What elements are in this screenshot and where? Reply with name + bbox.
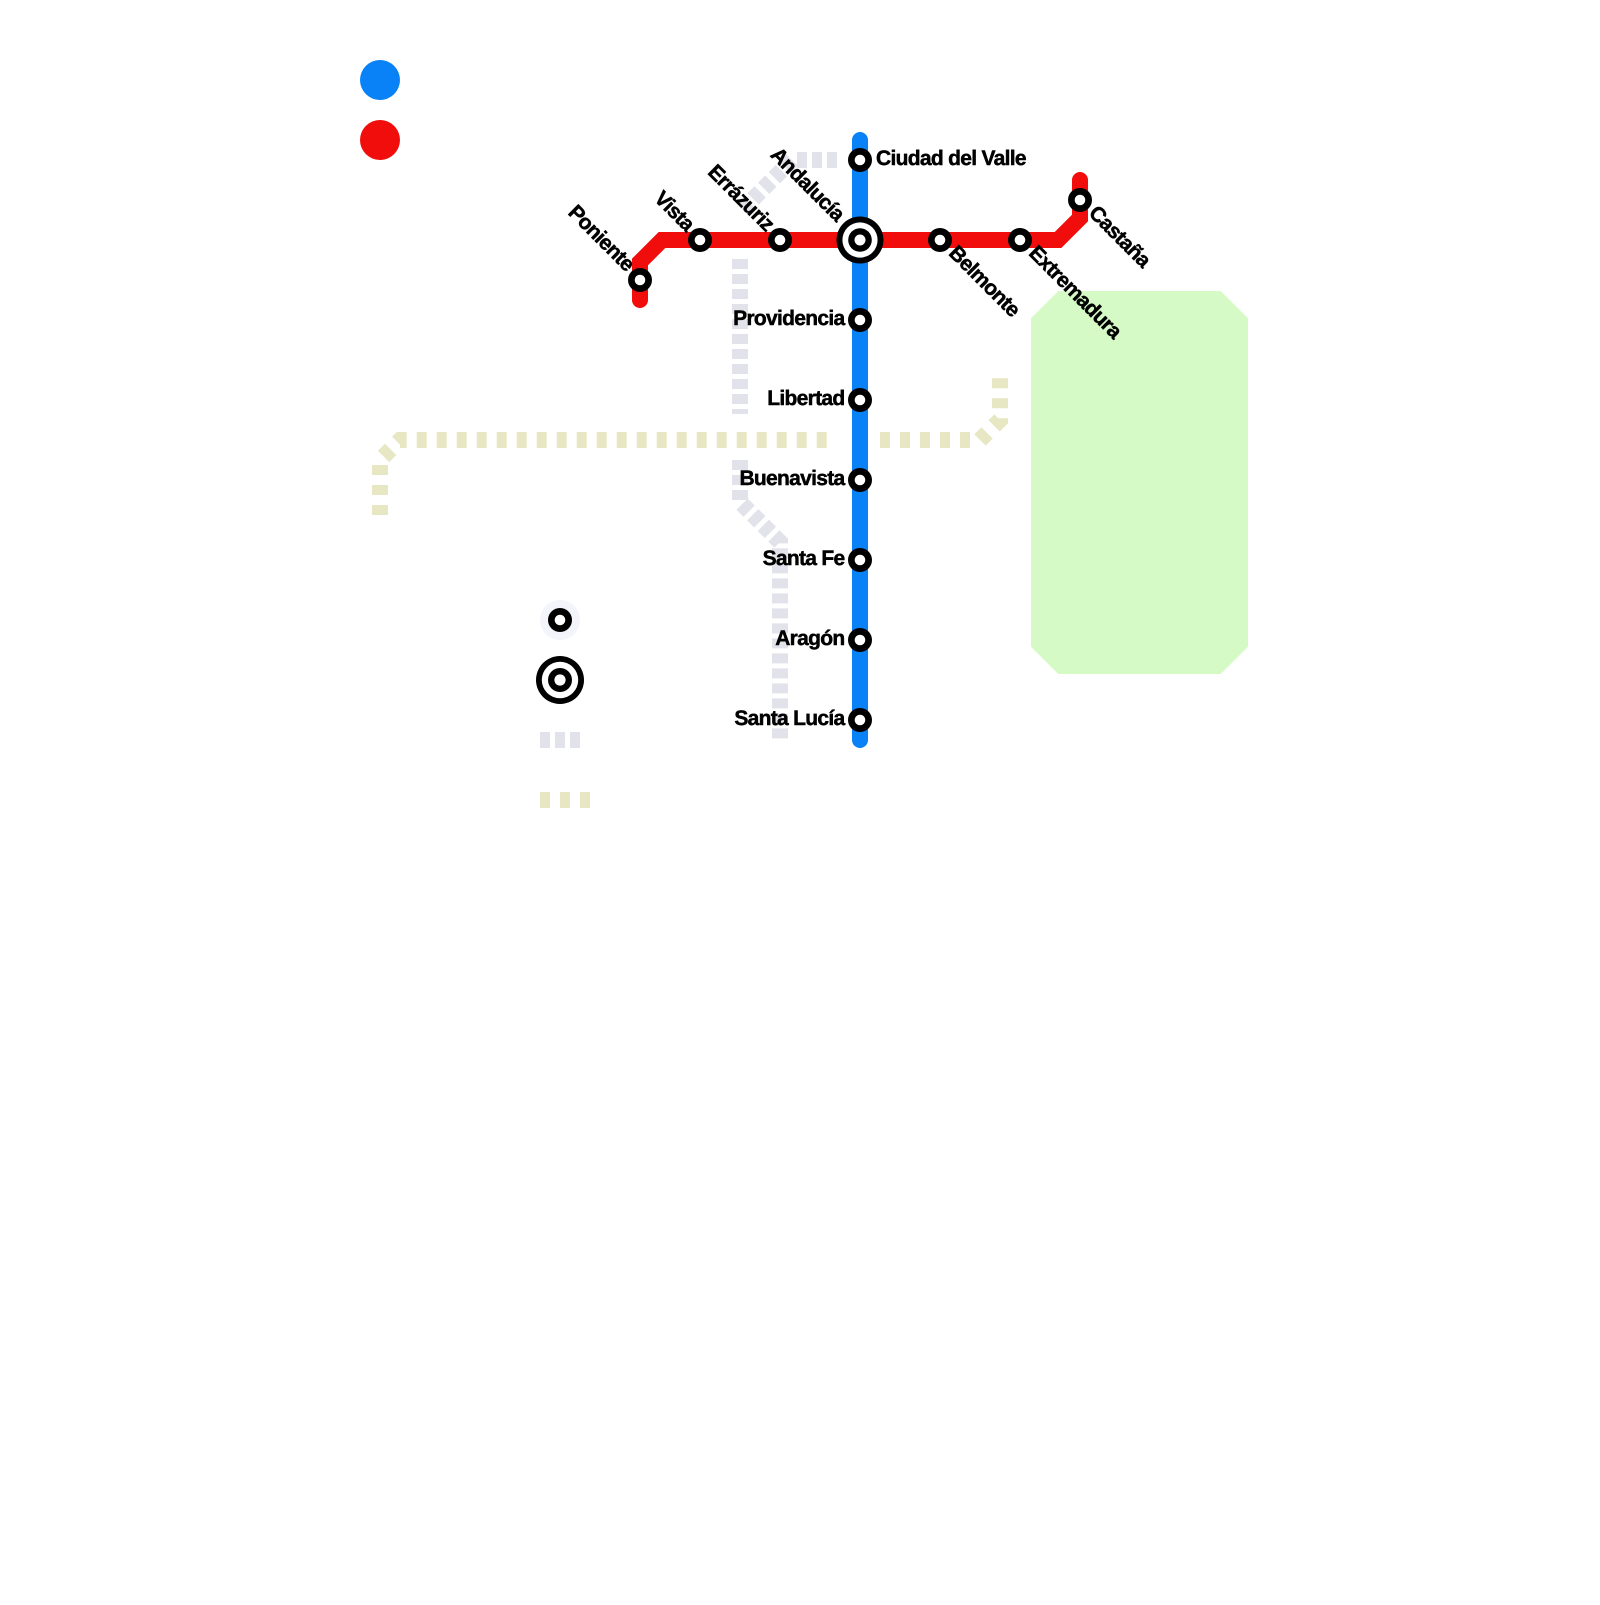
station Castana	[1068, 188, 1092, 212]
station Providencia	[848, 308, 872, 332]
svg-text:Buenavista: Buenavista	[739, 467, 845, 490]
station Vista	[688, 228, 712, 252]
station Santa Fe	[848, 548, 872, 572]
svg-text:Vista: Vista	[650, 187, 700, 237]
svg-text:Aragón: Aragón	[775, 627, 844, 650]
isolated station	[548, 608, 572, 632]
svg-text:Santa Lucía: Santa Lucía	[734, 707, 845, 730]
svg-text:Providencia: Providencia	[733, 307, 845, 330]
legend red circle	[360, 120, 400, 160]
svg-text:Belmonte: Belmonte	[944, 241, 1024, 321]
yellow dashed line (under construction)	[380, 440, 828, 515]
red line B	[640, 180, 1080, 300]
station Santa Lucia	[848, 708, 872, 732]
pale halo behind isolated station	[540, 600, 580, 640]
gray dash sample	[540, 732, 580, 748]
station Ciudad del Valle	[848, 148, 872, 172]
gray dashed line lower part	[740, 460, 780, 740]
isolated interchange	[536, 656, 584, 704]
svg-text:Santa Fe: Santa Fe	[763, 547, 845, 570]
yellow dash sample	[540, 792, 590, 808]
station Aragon	[848, 628, 872, 652]
svg-text:Ciudad del Valle: Ciudad del Valle	[876, 147, 1026, 170]
station Extremadura	[1008, 228, 1032, 252]
svg-text:Errázuriz: Errázuriz	[703, 160, 778, 235]
park green area	[1033, 293, 1246, 672]
station Poniente	[628, 268, 652, 292]
interchange Andalucia	[837, 217, 884, 264]
station Libertad	[848, 388, 872, 412]
blue line A	[852, 140, 868, 740]
legend blue circle	[360, 60, 400, 100]
svg-text:Libertad: Libertad	[767, 387, 844, 410]
station Buenavista	[848, 468, 872, 492]
svg-text:Poniente: Poniente	[564, 201, 639, 276]
station Errazuriz	[768, 228, 792, 252]
svg-text:Castaña: Castaña	[1084, 201, 1155, 272]
gray dashed line upper part	[740, 160, 837, 212]
station Belmonte	[928, 228, 952, 252]
